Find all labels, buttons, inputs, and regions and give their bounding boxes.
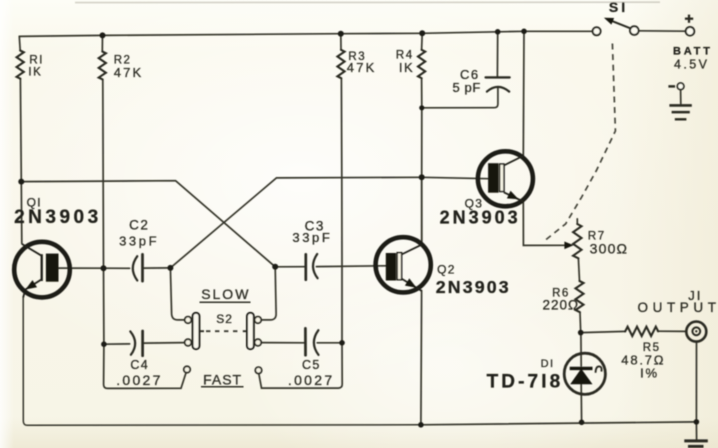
svg-text:FAST: FAST <box>203 371 242 387</box>
svg-text:IK: IK <box>399 60 414 75</box>
svg-text:DI: DI <box>541 358 555 370</box>
svg-text:C4: C4 <box>130 358 149 372</box>
svg-text:2N3903: 2N3903 <box>440 207 521 227</box>
svg-text:33pF: 33pF <box>292 230 332 245</box>
svg-text:47K: 47K <box>114 65 144 80</box>
svg-text:2N3903: 2N3903 <box>14 207 102 228</box>
svg-text:SLOW: SLOW <box>201 286 250 302</box>
svg-text:2N3903: 2N3903 <box>436 277 511 297</box>
svg-text:47K: 47K <box>347 60 377 75</box>
svg-text:.0027: .0027 <box>116 372 163 388</box>
svg-text:I%: I% <box>640 366 659 381</box>
svg-text:33pF: 33pF <box>119 234 159 249</box>
svg-text:220Ω: 220Ω <box>543 298 580 313</box>
svg-text:OUTPUT: OUTPUT <box>638 300 718 315</box>
svg-text:C2: C2 <box>129 218 149 233</box>
svg-text:IK: IK <box>28 66 42 78</box>
svg-text:RI: RI <box>29 55 44 67</box>
svg-text:SI: SI <box>609 0 628 15</box>
svg-text:TD-7I8: TD-7I8 <box>487 371 564 392</box>
svg-text:C5: C5 <box>302 358 321 372</box>
svg-text:S2: S2 <box>216 312 233 326</box>
svg-text:.0027: .0027 <box>288 372 335 388</box>
svg-text:300Ω: 300Ω <box>590 240 629 256</box>
svg-text:4.5V: 4.5V <box>674 58 709 72</box>
svg-text:Q2: Q2 <box>437 263 456 277</box>
svg-text:BATT: BATT <box>673 46 713 58</box>
svg-text:5 pF: 5 pF <box>453 80 481 95</box>
